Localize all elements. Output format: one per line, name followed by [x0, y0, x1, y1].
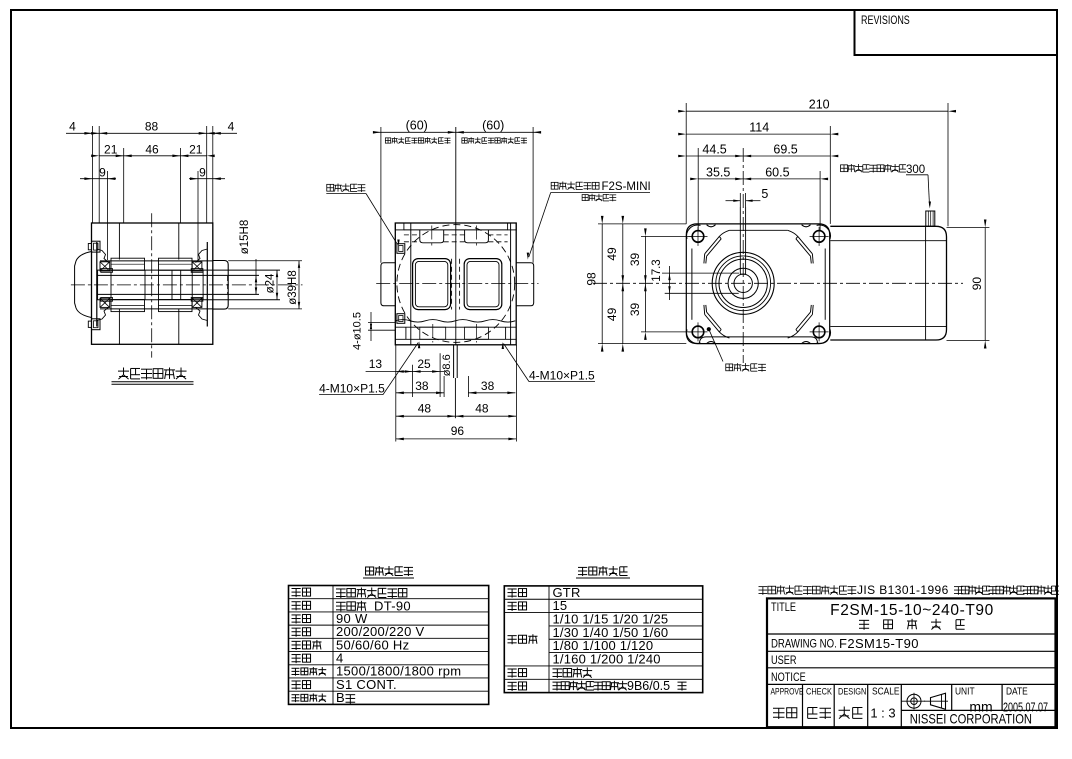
- svg-text:S1 CONT.: S1 CONT.: [336, 677, 397, 692]
- svg-text:96: 96: [451, 424, 465, 438]
- svg-text:F2S-MINI: F2S-MINI: [602, 181, 651, 193]
- svg-text:DT-90: DT-90: [374, 598, 411, 613]
- svg-text:21: 21: [189, 143, 203, 157]
- svg-text:13: 13: [369, 357, 383, 371]
- svg-text:UNIT: UNIT: [955, 686, 975, 698]
- svg-text:F2SM15-T90: F2SM15-T90: [839, 636, 919, 651]
- svg-text:SCALE: SCALE: [872, 686, 900, 698]
- svg-text:B: B: [336, 690, 345, 705]
- svg-text:48: 48: [475, 402, 489, 416]
- svg-text:ø24: ø24: [265, 273, 277, 293]
- svg-text:300: 300: [906, 164, 925, 176]
- svg-text:4-M10×P1.5: 4-M10×P1.5: [319, 382, 385, 396]
- svg-text:44.5: 44.5: [702, 142, 726, 156]
- svg-text:39: 39: [628, 253, 642, 267]
- svg-text:4-ø10.5: 4-ø10.5: [352, 312, 364, 350]
- svg-text:88: 88: [145, 120, 159, 134]
- svg-text:DATE: DATE: [1006, 686, 1028, 698]
- svg-text:9B6/0.5: 9B6/0.5: [627, 679, 670, 693]
- svg-text:90: 90: [970, 277, 984, 291]
- svg-text:(60): (60): [482, 118, 504, 132]
- svg-text:ø39H8: ø39H8: [287, 270, 299, 305]
- svg-text:(60): (60): [406, 118, 428, 132]
- svg-text:REVISIONS: REVISIONS: [861, 15, 910, 27]
- svg-text:4: 4: [69, 120, 76, 134]
- svg-text:JIS B1301-1996: JIS B1301-1996: [857, 583, 949, 597]
- svg-text:NISSEI CORPORATION: NISSEI CORPORATION: [910, 712, 1032, 727]
- svg-text:1 : 3: 1 : 3: [870, 706, 895, 721]
- svg-text:4: 4: [228, 120, 235, 134]
- svg-text:17.3: 17.3: [651, 259, 663, 281]
- svg-text:APPROVE: APPROVE: [771, 686, 804, 696]
- svg-text:TITLE: TITLE: [771, 602, 796, 614]
- svg-text:CHECK: CHECK: [806, 686, 832, 697]
- svg-text:9: 9: [199, 165, 206, 179]
- svg-text:98: 98: [585, 272, 599, 286]
- svg-text:38: 38: [481, 379, 495, 393]
- svg-text:39: 39: [628, 303, 642, 317]
- svg-text:35.5: 35.5: [706, 165, 730, 179]
- svg-text:49: 49: [605, 247, 619, 261]
- svg-text:25: 25: [417, 357, 431, 371]
- svg-text:9: 9: [99, 165, 106, 179]
- svg-text:114: 114: [749, 121, 769, 135]
- svg-text:49: 49: [605, 307, 619, 321]
- svg-text:USER: USER: [771, 655, 797, 667]
- svg-text:ø15H8: ø15H8: [239, 220, 251, 255]
- svg-text:46: 46: [145, 143, 159, 157]
- svg-text:210: 210: [809, 98, 830, 112]
- svg-text:NOTICE: NOTICE: [771, 672, 806, 684]
- svg-text:5: 5: [761, 187, 768, 201]
- svg-text:48: 48: [418, 402, 432, 416]
- svg-text:DESIGN: DESIGN: [838, 686, 866, 697]
- svg-text:ø8.6: ø8.6: [441, 354, 453, 376]
- svg-text:50/60/60 Hz: 50/60/60 Hz: [336, 637, 409, 652]
- svg-text:4-M10×P1.5: 4-M10×P1.5: [529, 369, 595, 383]
- svg-text:F2SM-15-10~240-T90: F2SM-15-10~240-T90: [830, 602, 994, 619]
- svg-text:38: 38: [415, 379, 429, 393]
- svg-text:21: 21: [104, 143, 118, 157]
- svg-text:DRAWING NO.: DRAWING NO.: [771, 638, 837, 651]
- svg-text:60.5: 60.5: [765, 165, 789, 179]
- svg-text:69.5: 69.5: [773, 142, 797, 156]
- svg-text:1/160 1/200 1/240: 1/160 1/200 1/240: [553, 652, 661, 667]
